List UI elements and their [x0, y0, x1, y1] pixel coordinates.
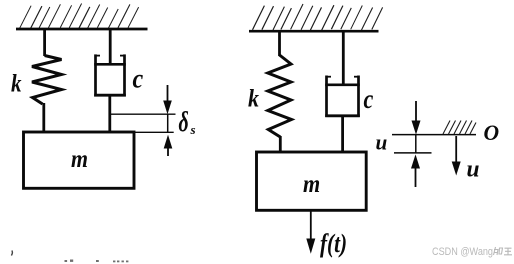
faint cropped text remnants (bottom) — [65, 260, 129, 263]
spring k bottom rod (left figure) — [42, 103, 45, 133]
damper c cylinder (right figure) — [325, 76, 360, 118]
svg-text:O: O — [484, 120, 500, 145]
svg-text:k: k — [248, 86, 259, 113]
svg-text:s: s — [190, 122, 196, 137]
damper bottom rod (right figure) — [341, 115, 344, 153]
spring k bottom rod (right figure) — [279, 136, 282, 153]
watermark CJK glyph 1 — [494, 247, 503, 255]
svg-text:m: m — [303, 171, 320, 198]
coordinate arrow u (downward from O line) — [452, 136, 461, 176]
svg-text:u: u — [467, 157, 480, 183]
arrow down to O line (u dimension) — [412, 101, 421, 153]
svg-text:m: m — [71, 146, 88, 173]
svg-text:CSDN @Wang: CSDN @Wang — [432, 246, 493, 258]
damper c top rod (left figure) — [109, 29, 112, 64]
ceiling hatching (left figure) — [20, 4, 139, 29]
mass m block (right figure) — [257, 152, 367, 210]
spring k top rod (left figure) — [43, 29, 46, 56]
damper bottom rod (left figure) — [108, 95, 111, 133]
watermark CJK glyph 2 — [504, 248, 512, 255]
damper c cylinder (left figure) — [94, 54, 126, 96]
svg-text:c: c — [364, 84, 374, 114]
spring k zigzag (left figure) — [32, 56, 62, 105]
ceiling line (left figure) — [16, 28, 148, 31]
damper c top rod (right figure) — [342, 31, 345, 85]
dimension line upper (delta_s, left figure) — [110, 113, 176, 115]
force arrow f(t) (right figure) — [306, 210, 315, 254]
svg-text:f(t): f(t) — [320, 229, 347, 258]
dimension line lower (delta_s, left figure) — [134, 131, 174, 133]
faint apostrophe mark (bottom left) — [11, 251, 12, 256]
arrow up to lower dim line (delta_s) — [164, 135, 173, 156]
displaced position line (u dimension, right figure) — [394, 152, 432, 154]
hatching above O line — [443, 121, 476, 135]
svg-text:δ: δ — [179, 107, 189, 138]
damper piston plate (right figure) — [325, 84, 360, 87]
equilibrium O line (right figure) — [392, 134, 476, 136]
damper piston plate (left figure) — [94, 63, 126, 66]
ceiling line (right figure) — [249, 30, 379, 33]
mass m block (left figure) — [24, 132, 135, 188]
ceiling hatching (right figure) — [253, 4, 383, 30]
spring k top rod (right figure) — [278, 31, 281, 56]
svg-text:c: c — [133, 64, 144, 94]
svg-text:u: u — [376, 130, 388, 155]
arrow down to upper dim line (delta_s) — [163, 85, 172, 132]
spring k zigzag (right figure) — [268, 55, 292, 137]
svg-text:k: k — [11, 71, 22, 98]
arrow up to displaced line (u dimension) — [411, 154, 420, 187]
